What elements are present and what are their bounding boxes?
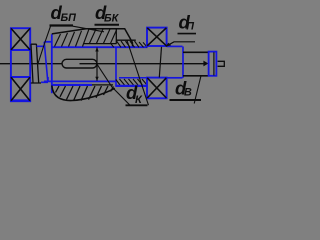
centerline (0, 63, 206, 65)
seat dK top fit line (52, 46, 148, 48)
keyway slot (62, 59, 97, 68)
collar dBK top (44, 41, 51, 43)
wheel bottom blob top edge (52, 84, 92, 86)
bearing R bottom X (147, 78, 166, 98)
seat dK bottom fit line (44, 80, 116, 82)
bottom band bottom edge blue (115, 85, 147, 87)
leader dP arrowhead (166, 43, 172, 47)
svg-text:БК: БК (104, 12, 120, 24)
wheel right face top (115, 47, 117, 86)
svg-text:В: В (184, 87, 192, 99)
bearing L frame (11, 28, 30, 101)
bearing R top X (147, 28, 166, 46)
leader dK (97, 64, 130, 105)
journal mid line (159, 47, 161, 78)
wheel bottom curve (52, 86, 115, 101)
centerline arrow (203, 61, 208, 67)
collar dBK face (44, 42, 48, 82)
wheel top outline (52, 29, 133, 47)
end face line (213, 52, 215, 75)
label shelf dK (126, 104, 148, 106)
hub bore recess line (84, 43, 117, 45)
long leader dK2 (127, 40, 149, 105)
journal bottom line to step (167, 77, 183, 79)
bottom band journal line (119, 77, 147, 79)
label dP (179, 11, 195, 32)
hub left face (51, 34, 53, 93)
leader dBP (38, 25, 51, 63)
bearing L bottom X (11, 77, 30, 101)
hub hatch (55, 29, 117, 47)
leader dP (166, 42, 195, 47)
label dBP (51, 2, 77, 24)
label dBK (95, 2, 120, 24)
shaft end bottom edge (183, 75, 209, 77)
journal top line to step (167, 45, 183, 47)
dBP section top edge (37, 45, 44, 47)
bearing R frame (147, 28, 167, 99)
shelf tail line (73, 26, 104, 32)
label dV (175, 78, 192, 99)
tiny end pin (218, 61, 225, 66)
band dense hatch top (111, 41, 147, 47)
step face blue (182, 47, 184, 78)
dK dimension line (96, 48, 98, 81)
coupling seat blue rect (209, 52, 217, 76)
leader dV (194, 76, 201, 104)
label underline dP (178, 33, 197, 35)
collar dBK bottom lines (41, 77, 48, 82)
shaft assembly schematic (0, 0, 238, 127)
svg-text:П: П (186, 20, 194, 32)
label shelf dBK (95, 24, 120, 26)
svg-text:БП: БП (61, 12, 77, 24)
label shelf dBP (50, 24, 74, 26)
label shelf dV (170, 99, 202, 101)
bearing L top X (11, 28, 30, 49)
label dK (126, 82, 143, 106)
slinger ring (31, 44, 41, 83)
wheel bottom hatch (56, 86, 114, 101)
band top edge (116, 29, 136, 44)
shaft end top edge (183, 51, 209, 53)
bottom band dense hatch (116, 79, 148, 85)
